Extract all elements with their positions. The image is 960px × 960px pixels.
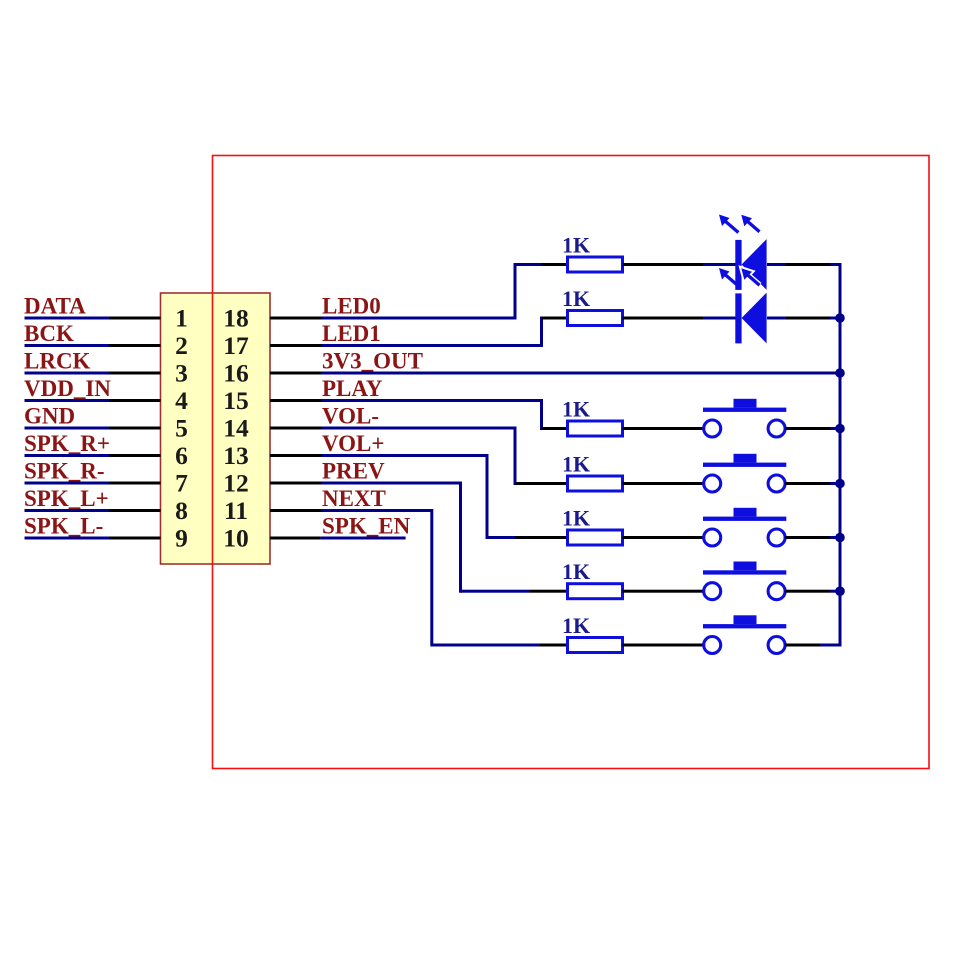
pin number 16 [223, 358, 249, 387]
resistor R2 [568, 311, 623, 326]
wire pin9 (SPK_L-) [25, 537, 161, 540]
junction dot at bus / VOL- row [835, 479, 845, 489]
svg-text:17: 17 [223, 331, 249, 360]
net label SPK_EN [322, 514, 411, 539]
pin number 6 [175, 441, 188, 470]
svg-text:GND: GND [24, 404, 75, 429]
push button S5 (NEXT) [703, 615, 786, 653]
pin number 8 [175, 496, 188, 525]
net label GND [24, 404, 75, 429]
pin number 4 [175, 386, 188, 415]
svg-text:1K: 1K [562, 286, 590, 311]
wire pin12 PREV to R6 [270, 482, 568, 593]
pin number 5 [175, 413, 188, 442]
net label BCK [24, 321, 74, 346]
wire pin2 (BCK) [25, 344, 161, 347]
pin number 9 [175, 523, 188, 552]
push button S4 (PREV) [703, 562, 786, 600]
wire S1 (PLAY) to bus [785, 427, 840, 430]
value label 1K (R2) [562, 286, 590, 311]
LED D1 (LED0) [719, 215, 767, 290]
push button S2 (VOL-) [703, 454, 786, 492]
resistor R7 [568, 638, 623, 653]
svg-text:VDD_IN: VDD_IN [24, 376, 111, 401]
wire pin18 LED0 to R1 [270, 263, 568, 320]
svg-text:1K: 1K [562, 506, 590, 531]
wire R2 to LED [623, 317, 736, 320]
push button S3 (VOL+) [703, 508, 786, 546]
junction dot at bus / PREV row [835, 586, 845, 596]
pin number 17 [223, 331, 249, 360]
value label 1K (R1) [562, 233, 590, 258]
svg-text:9: 9 [175, 523, 188, 552]
svg-text:1K: 1K [562, 613, 590, 638]
net label VOL+ [322, 431, 385, 456]
svg-text:15: 15 [223, 386, 249, 415]
net label PLAY [322, 376, 383, 401]
net label 3V3_OUT [322, 349, 423, 374]
wire pin13 VOL+ to R5 [270, 454, 568, 539]
resistor R3 [568, 421, 623, 436]
svg-text:5: 5 [175, 413, 188, 442]
svg-text:LRCK: LRCK [24, 349, 91, 374]
pin number 7 [175, 468, 188, 497]
svg-text:PREV: PREV [322, 459, 385, 484]
svg-text:13: 13 [223, 441, 249, 470]
svg-text:12: 12 [223, 468, 249, 497]
svg-text:8: 8 [175, 496, 188, 525]
svg-text:SPK_L-: SPK_L- [24, 514, 103, 539]
wire S4 (PREV) to bus [785, 590, 840, 593]
wire pin15 PLAY to R3 [270, 399, 568, 430]
net label PREV [322, 459, 385, 484]
wire pin11 NEXT to R7 [270, 509, 568, 647]
wire pin1 (DATA) [25, 317, 161, 320]
wire R4 to button [623, 482, 704, 485]
push button S1 (PLAY) [703, 399, 786, 437]
wire S2 (VOL-) to bus [785, 482, 840, 485]
svg-text:SPK_R+: SPK_R+ [24, 431, 110, 456]
svg-text:NEXT: NEXT [322, 486, 386, 511]
net label SPK_R+ [24, 431, 110, 456]
svg-text:SPK_R-: SPK_R- [24, 459, 105, 484]
svg-text:3V3_OUT: 3V3_OUT [322, 349, 423, 374]
value label 1K (R7) [562, 613, 590, 638]
wire D1 to bus corner [767, 263, 842, 266]
connector J1 [161, 293, 271, 564]
svg-text:1K: 1K [562, 233, 590, 258]
junction dot at bus / VOL+ row [835, 533, 845, 543]
wire R5 to button [623, 536, 704, 539]
wire pin16 3V3_OUT to bus [270, 372, 840, 375]
pin number 11 [224, 496, 248, 525]
svg-text:7: 7 [175, 468, 188, 497]
wire pin3 (LRCK) [25, 372, 161, 375]
resistor R1 [568, 257, 623, 272]
net label NEXT [322, 486, 386, 511]
pin number 12 [223, 468, 249, 497]
svg-text:4: 4 [175, 386, 188, 415]
junction dot at bus / LED1 row [835, 313, 845, 323]
pin number 2 [175, 331, 188, 360]
svg-text:1K: 1K [562, 559, 590, 584]
LED D2 (LED1) [719, 268, 767, 343]
svg-text:6: 6 [175, 441, 188, 470]
svg-text:VOL+: VOL+ [322, 431, 385, 456]
svg-text:11: 11 [224, 496, 248, 525]
junction dot at bus / 3V3_OUT row [835, 368, 845, 378]
net label SPK_R- [24, 459, 105, 484]
wire D2 to bus junction [767, 317, 840, 320]
value label 1K (R4) [562, 452, 590, 477]
wire pin14 VOL- to R4 [270, 427, 568, 486]
svg-text:BCK: BCK [24, 321, 74, 346]
svg-text:3: 3 [175, 358, 188, 387]
svg-text:SPK_EN: SPK_EN [322, 514, 411, 539]
wire R6 to button [623, 590, 704, 593]
value label 1K (R3) [562, 397, 590, 422]
net label LED1 [322, 321, 381, 346]
pin number 13 [223, 441, 249, 470]
svg-text:1: 1 [175, 303, 188, 332]
wire R7 to button [623, 644, 704, 647]
wire pin4 (VDD_IN) [25, 399, 161, 402]
value label 1K (R6) [562, 559, 590, 584]
pin number 1 [175, 303, 188, 332]
net label VOL- [322, 404, 379, 429]
pin number 15 [223, 386, 249, 415]
wire pin17 LED1 to R2 [270, 317, 568, 348]
svg-text:1K: 1K [562, 397, 590, 422]
svg-text:1K: 1K [562, 452, 590, 477]
svg-text:14: 14 [223, 413, 249, 442]
value label 1K (R5) [562, 506, 590, 531]
net label SPK_L+ [24, 486, 109, 511]
wire S5 (NEXT) to bus [785, 644, 842, 647]
junction dot at bus / PLAY row [835, 424, 845, 434]
net label DATA [24, 294, 86, 319]
pin number 3 [175, 358, 188, 387]
resistor R6 [568, 584, 623, 599]
svg-text:DATA: DATA [24, 294, 86, 319]
net label LED0 [322, 294, 381, 319]
net label SPK_L- [24, 514, 103, 539]
svg-text:2: 2 [175, 331, 188, 360]
wire R3 to button [623, 427, 704, 430]
wire R1 to LED [623, 263, 736, 266]
svg-text:LED1: LED1 [322, 321, 381, 346]
svg-text:PLAY: PLAY [322, 376, 383, 401]
net label VDD_IN [24, 376, 111, 401]
svg-text:LED0: LED0 [322, 294, 381, 319]
svg-text:10: 10 [223, 523, 249, 552]
wire pin8 (SPK_L+) [25, 509, 161, 512]
wire S3 (VOL+) to bus [785, 536, 840, 539]
pin number 18 [223, 303, 249, 332]
svg-text:16: 16 [223, 358, 249, 387]
resistor R4 [568, 476, 623, 491]
wire pin5 (GND) [25, 427, 161, 430]
svg-text:VOL-: VOL- [322, 404, 379, 429]
pin number 14 [223, 413, 249, 442]
wire pin7 (SPK_R-) [25, 482, 161, 485]
wire pin6 (SPK_R+) [25, 454, 161, 457]
wire pin10 SPK_EN stub [270, 537, 406, 540]
net label LRCK [24, 349, 91, 374]
svg-text:18: 18 [223, 303, 249, 332]
resistor R5 [568, 530, 623, 545]
wire 3V3 bus vertical [839, 263, 842, 647]
pin number 10 [223, 523, 249, 552]
svg-text:SPK_L+: SPK_L+ [24, 486, 109, 511]
